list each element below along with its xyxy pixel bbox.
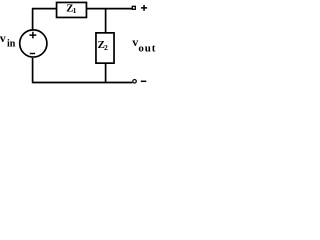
impedance Z1: [57, 2, 87, 17]
wire from source top to Z1 (vertical then horizontal): [32, 9, 57, 30]
+ sign at output: [141, 5, 147, 11]
source + polarity mark: [29, 32, 36, 39]
wire junction down to Z2: [105, 9, 107, 33]
bottom wire from source to output - terminal: [32, 58, 132, 83]
- sign at output: [141, 80, 147, 82]
source - polarity mark: [30, 53, 35, 55]
voltage source circle: [20, 30, 47, 57]
output + terminal (open square): [132, 6, 135, 9]
wire from Z1 to output + terminal: [87, 8, 132, 10]
impedance Z2: [96, 33, 114, 63]
wire from Z2 bottom to bottom rail: [105, 63, 107, 83]
output - terminal (open circle): [133, 80, 137, 84]
